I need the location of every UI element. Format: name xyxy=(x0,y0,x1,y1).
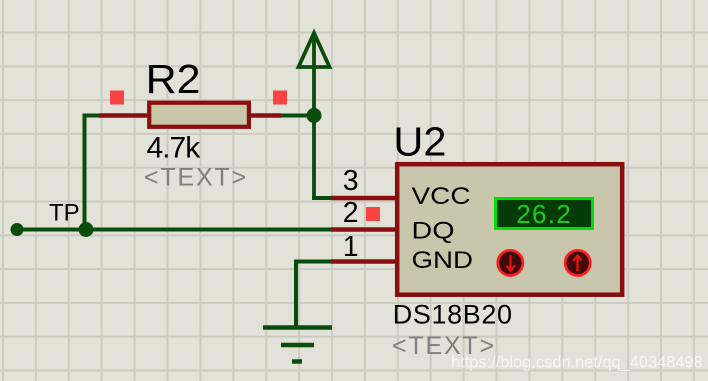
svg-text:DQ: DQ xyxy=(412,218,455,245)
wire pin 1 to ground xyxy=(296,262,331,328)
wire left vertical from resistor left down to TP node xyxy=(85,116,100,230)
node TP origin dot xyxy=(11,223,24,236)
svg-text:26.2: 26.2 xyxy=(516,199,572,229)
svg-text:VCC: VCC xyxy=(412,183,471,210)
resistor R2 pin right xyxy=(251,113,281,118)
junction dot TP xyxy=(79,222,94,237)
resistor R2 body xyxy=(149,103,249,127)
DS18B20 U2 body xyxy=(397,164,622,295)
svg-text:1: 1 xyxy=(343,231,359,263)
svg-text:<TEXT>: <TEXT> xyxy=(144,164,248,192)
svg-text:https://blog.csdn.net/qq_40348: https://blog.csdn.net/qq_40348498 xyxy=(451,354,703,372)
power symbol VCC arrow xyxy=(299,33,330,198)
pin 3 stub xyxy=(331,196,397,201)
svg-text:U2: U2 xyxy=(393,118,446,164)
svg-text:3: 3 xyxy=(343,165,359,197)
junction dot at power stem xyxy=(307,108,322,123)
svg-text:DS18B20: DS18B20 xyxy=(393,300,513,330)
pin marker left of R2 xyxy=(110,91,124,105)
LCD display xyxy=(496,199,593,229)
svg-text:R2: R2 xyxy=(146,56,201,102)
pin marker right of R2 xyxy=(273,91,287,105)
button up xyxy=(565,250,590,275)
svg-text:TP: TP xyxy=(49,200,80,227)
button down xyxy=(498,250,523,275)
resistor R2 pin left xyxy=(99,113,148,118)
pin 2 stub xyxy=(331,227,397,232)
svg-text:4.7k: 4.7k xyxy=(147,132,202,165)
wire resistor-right to power stem xyxy=(281,114,314,118)
wire power stem to pin 3 xyxy=(312,196,331,200)
wire TP horizontal to pin 2 xyxy=(17,228,331,232)
pin marker at pin 2 xyxy=(366,207,380,221)
pin 1 stub xyxy=(331,259,397,264)
ground xyxy=(263,328,332,362)
svg-text:GND: GND xyxy=(412,247,474,274)
svg-text:2: 2 xyxy=(343,197,359,229)
